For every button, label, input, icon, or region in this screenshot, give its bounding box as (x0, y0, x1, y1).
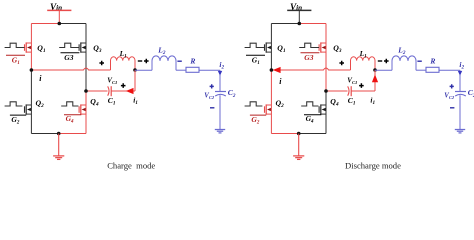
label minus at C2 (210, 107, 214, 109)
arrow current i2 (458, 71, 462, 76)
wire L2 to R (416, 69, 426, 71)
wire phase rail with crossover hop (31, 68, 110, 70)
label minus after L2 (177, 60, 181, 62)
node L1-L2 junction (133, 68, 137, 72)
svg-text:G3: G3 (64, 53, 73, 62)
capacitor C2 (455, 92, 466, 97)
svg-text:R: R (429, 57, 435, 66)
wire output drop to C2 (459, 70, 461, 91)
gate label G3b (301, 53, 320, 63)
wire R to output node (199, 69, 220, 71)
wire left rail lower (Q2 lead) (30, 70, 32, 134)
gate label G2 (10, 115, 26, 126)
wire phase rail with crossover hop (271, 68, 350, 70)
resistor R (186, 67, 199, 72)
wire C1 horizontal left segment (326, 90, 348, 92)
wire C1 riser from junction (134, 70, 136, 91)
node L1-L2 junction (373, 68, 377, 72)
capacitor C2 (215, 92, 226, 97)
node ground junction (297, 132, 301, 136)
transistor Q3b (319, 42, 326, 52)
wire Q4 lead to bottom rail (325, 91, 327, 134)
wire top rail right segment (59, 23, 86, 25)
transistor Q2 (25, 104, 32, 114)
gate pulse G1b (245, 43, 265, 47)
wire C1 horizontal left segment (86, 90, 108, 92)
node ground junction (57, 132, 61, 136)
gate pulse G3b (299, 43, 319, 47)
gate label G4 (64, 114, 81, 125)
wire R to output node (439, 69, 460, 71)
node phase A (30, 68, 34, 72)
wire C2 to ground (219, 95, 221, 129)
transistor Q1b (265, 42, 272, 52)
inductor L1 (111, 57, 136, 70)
arrow current i1 (372, 74, 378, 82)
capacitor C1 (108, 86, 112, 96)
supply Vin terminal bar (47, 10, 71, 23)
ground main (53, 134, 64, 160)
wire output drop to C2 (219, 70, 221, 91)
transistor Q3 (79, 42, 86, 52)
svg-text:G3: G3 (304, 53, 313, 62)
supply Vin terminal bar (287, 10, 311, 23)
node Vin junction (58, 22, 62, 26)
wire Q1 drain-source lead (270, 24, 272, 71)
label plus at C2 (210, 84, 214, 88)
node Vin junction (298, 22, 302, 26)
wire C1 riser from junction (374, 70, 376, 91)
svg-text:Charge mode: Charge mode (107, 160, 155, 170)
label plus at C2 (450, 84, 454, 88)
gate label G2b (250, 115, 266, 126)
wire bottom rail right segment (299, 133, 326, 135)
wire junction to L2 (375, 69, 392, 71)
svg-text:R: R (189, 57, 195, 66)
gate label G1b (246, 55, 265, 66)
wire top rail left segment (271, 23, 299, 25)
label plus before L1 (99, 61, 104, 66)
svg-text:Discharge mode: Discharge mode (345, 160, 401, 170)
gate pulse G1 (5, 43, 25, 47)
wire junction to L2 (135, 69, 152, 71)
label minus after L1 (138, 60, 142, 62)
arrow current i (273, 67, 281, 73)
transistor Q4b (319, 104, 326, 114)
gate label G4b (304, 114, 321, 125)
capacitor C1 (348, 86, 352, 96)
transistor Q4 (79, 104, 86, 114)
wire bottom rail right segment (59, 133, 86, 135)
label plus at VC1 (359, 83, 364, 88)
wire Q3 drain-source lead (85, 24, 87, 92)
label plus before L2 (384, 59, 389, 64)
wire C1 horizontal right segment (351, 90, 375, 92)
label minus at C2 (450, 107, 454, 109)
node C1 phase B junction (324, 89, 328, 93)
wire Q1 drain-source lead (30, 24, 32, 71)
transistor Q2b (265, 104, 272, 114)
wire top rail left segment (31, 23, 59, 25)
transistor Q1 (25, 42, 32, 52)
inductor L2 (152, 56, 176, 70)
gate label G3 (61, 53, 80, 63)
gate pulse G2b (245, 102, 263, 106)
wire left rail lower (Q2 lead) (270, 70, 272, 134)
wire C1 horizontal right segment (111, 90, 135, 92)
label plus before L1 (339, 61, 344, 66)
inductor L1b (351, 57, 376, 70)
ground mainb (293, 134, 304, 160)
gate pulse G2 (5, 102, 23, 106)
label plus before L2 (144, 59, 149, 64)
wire Q4 lead to bottom rail (85, 91, 87, 134)
gate pulse G4b (301, 102, 318, 106)
node phase A (270, 68, 274, 72)
ground outputb (455, 129, 465, 133)
inductor L2b (392, 56, 416, 70)
gate pulse G3 (59, 43, 79, 47)
wire bottom rail left segment (271, 133, 298, 135)
wire top rail right segment (299, 23, 326, 25)
arrow current i2 (218, 71, 222, 76)
wire L2 to R (176, 69, 186, 71)
wire bottom rail left segment (31, 133, 58, 135)
ground output (215, 129, 225, 133)
label minus after L1 (378, 60, 382, 62)
resistor R (426, 67, 439, 72)
gate pulse G4 (61, 102, 78, 106)
node C1 phase B junction (84, 89, 88, 93)
gate label G1 (6, 55, 25, 66)
label minus after L2 (417, 60, 421, 62)
label plus at VC1 (121, 83, 126, 88)
wire C2 to ground (459, 95, 461, 129)
wire Q3 drain-source lead (325, 24, 327, 92)
arrow current i1 (126, 88, 134, 94)
